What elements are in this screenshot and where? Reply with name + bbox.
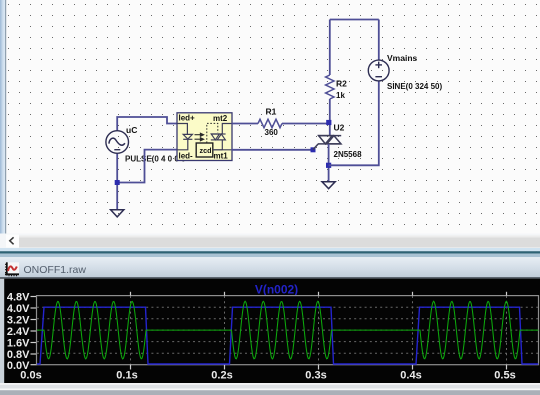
node junction J3 [326,163,331,168]
resistor R2 [326,75,334,99]
svg-text:mt1: mt1 [214,152,229,161]
svg-text:led+: led+ [179,114,196,123]
opto internal triac [211,124,232,150]
svg-text:4.0V: 4.0V [7,303,30,315]
zcd link wire [213,149,223,151]
svg-text:V(n002): V(n002) [255,283,298,297]
voltage source uC [106,131,129,154]
svg-text:3.2V: 3.2V [7,314,30,326]
top wire R2 branch to Vmains branch [330,19,379,21]
wire top to R2 [329,20,331,76]
opto dashed detector outline [207,123,218,143]
svg-text:mt2: mt2 [213,114,228,123]
schematic background [0,0,540,234]
waveform file icon [5,262,19,276]
opto light arrows [195,133,204,141]
svg-text:led-: led- [179,152,194,161]
svg-text:0.2s: 0.2s [211,370,232,382]
wire mt1 to triac gate [232,149,314,151]
wire bottom node to Vmains branch [329,81,379,166]
svg-text:360: 360 [265,128,279,137]
svg-text:1k: 1k [336,91,345,100]
svg-text:1.6V: 1.6V [7,337,30,349]
wire R2 to triac [329,99,331,136]
voltage source Vmains [368,60,389,81]
svg-text:0.3s: 0.3s [305,370,326,382]
node junction J1 [115,180,120,185]
svg-text:zcd: zcd [200,146,212,155]
svg-text:0.4s: 0.4s [400,370,421,382]
grid dashed verticals [131,296,507,365]
y axis ticks [31,297,37,365]
resistor R1 [258,119,282,127]
grid dashed horizontals [37,307,539,353]
x axis ticks [131,292,507,370]
ground (right) [322,182,335,189]
svg-text:R2: R2 [336,79,347,89]
wire Vmains top [378,20,380,61]
optocoupler U1 body [177,113,232,161]
wire R1 to node [282,123,329,125]
opto internal LED branch [177,124,192,150]
plot frame [37,296,539,365]
svg-text:0.5s: 0.5s [494,370,515,382]
node junction J2 [326,120,331,125]
y axis labels [7,291,30,372]
svg-text:SINE(0 324 50): SINE(0 324 50) [387,82,442,91]
svg-text:uC: uC [126,125,137,135]
wire uC top to opto led+ [117,117,177,131]
triac U2 [313,136,341,150]
horizontal scrollbar [0,234,540,249]
wire uC bottom to ground [116,153,118,210]
svg-text:U2: U2 [334,123,345,133]
node gate square [311,147,316,152]
svg-text:R1: R1 [266,107,277,117]
trace V(n001) blue pulse envelope [37,307,538,364]
svg-text:0.1s: 0.1s [116,370,137,382]
svg-text:Vmains: Vmains [387,53,418,63]
x axis labels [20,370,515,382]
window split bars [0,248,540,251]
svg-text:4.8V: 4.8V [7,291,30,303]
waveform plot background [0,279,540,383]
wire triac to bottom node [328,144,330,182]
bottom window strips [0,383,540,385]
svg-text:ONOFF1.raw: ONOFF1.raw [24,264,87,276]
svg-text:2.4V: 2.4V [7,326,30,338]
waveform tab bar [0,257,540,277]
svg-text:2N5568: 2N5568 [334,150,363,159]
wire mt2 to R1 [232,123,259,125]
svg-text:0.0s: 0.0s [20,370,41,382]
left window edge strip [0,0,6,248]
ground (left) [111,210,124,217]
trace V(n002) green sine bursts [37,301,539,359]
zcd box [196,143,213,157]
wire junction to opto led- [117,150,177,183]
